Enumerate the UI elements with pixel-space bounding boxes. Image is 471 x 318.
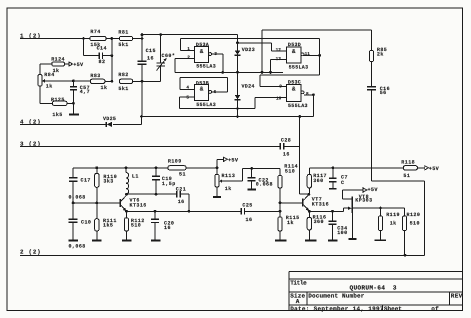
wire R113 wiper: [222, 168, 280, 181]
svg-text:5k1: 5k1: [118, 42, 128, 48]
svg-text:2: 2: [187, 56, 190, 61]
node VD24-net4: [236, 115, 239, 118]
svg-text:C25: C25: [242, 202, 252, 208]
capacitor C15: [138, 48, 156, 64]
wire R125-right: [67, 102, 73, 104]
svg-text:0,068: 0,068: [69, 194, 86, 200]
node rail R110: [95, 166, 98, 169]
svg-text:QUORUM-64: QUORUM-64: [350, 284, 386, 291]
svg-text:D53A: D53A: [196, 42, 209, 48]
svg-text:12: 12: [276, 48, 282, 53]
wire C16 down to common: [372, 90, 425, 256]
capacitor C19: [152, 168, 176, 194]
wire R85-C16: [371, 62, 373, 87]
ground bar C20: [151, 239, 161, 241]
node C25-col: [279, 210, 282, 213]
node pin13-join: [269, 71, 272, 74]
svg-text:&: &: [200, 48, 204, 55]
op-amp U2 gate D53B: [186, 81, 216, 109]
ground bar R119: [375, 239, 387, 241]
svg-text:510: 510: [285, 168, 295, 174]
diode VD23: [235, 35, 256, 73]
capacitor C34: [328, 211, 347, 240]
resistor R74: [90, 29, 106, 48]
svg-text:360: 360: [314, 219, 324, 225]
svg-text:R124: R124: [51, 57, 65, 63]
capacitor C14: [97, 46, 107, 66]
wire pin2 line: [175, 59, 194, 73]
svg-text:100: 100: [337, 230, 347, 236]
wire A-net horizontal: [175, 71, 283, 73]
svg-text:1k: 1k: [390, 221, 397, 227]
node VD23-tap: [236, 42, 239, 45]
wire C14 branch: [84, 39, 112, 82]
wire VT6 base: [73, 202, 120, 204]
svg-text:510: 510: [131, 223, 141, 229]
op-amp U3 gate D53D: [276, 42, 311, 70]
svg-text:R81: R81: [118, 30, 128, 36]
power +5V terminal 2: [217, 157, 239, 168]
potentiometer R84: [38, 72, 55, 89]
node R82/C60: [141, 80, 144, 83]
svg-text:+5V: +5V: [73, 62, 84, 68]
ground bar R112: [122, 239, 132, 241]
svg-text:10: 10: [276, 96, 282, 101]
op-amp U4 gate D53C: [276, 80, 309, 109]
node R74-left: [82, 37, 85, 40]
node rail C19: [155, 166, 158, 169]
capacitor C20: [151, 211, 174, 240]
wire T2 R85 top: [262, 30, 372, 73]
title block: [289, 271, 463, 312]
wire pin5/pin10 rail: [180, 108, 256, 110]
svg-text:of: of: [431, 305, 439, 312]
node 8-out: [312, 93, 315, 96]
node 1 (2): [20, 32, 41, 39]
node collector R117: [308, 193, 311, 196]
diode VD24: [235, 72, 255, 116]
wire T1 top: [142, 34, 238, 36]
svg-text:510: 510: [410, 221, 420, 227]
node base/R110: [95, 202, 98, 205]
svg-text:+5V: +5V: [368, 187, 379, 193]
resistor R124: [51, 57, 65, 74]
svg-text:13: 13: [276, 57, 282, 62]
node A-out: [221, 71, 224, 74]
capacitor C16: [367, 86, 390, 96]
svg-text:1k: 1k: [287, 220, 294, 226]
node 2 (2): [20, 248, 41, 255]
svg-text:0,068: 0,068: [69, 244, 86, 250]
svg-text:9: 9: [279, 84, 282, 89]
wire net1: [20, 38, 142, 40]
svg-text:3: 3: [393, 284, 397, 291]
node rail/R113: [216, 166, 219, 169]
node C21-drop: [188, 210, 191, 213]
resistor R116: [307, 211, 326, 240]
resistor R81: [118, 30, 132, 48]
resistor R109: [168, 158, 186, 177]
node T2-join: [261, 71, 264, 74]
svg-text:VD23: VD23: [242, 47, 255, 53]
wire pin12 line: [238, 43, 287, 51]
wire emitter to VT8: [309, 208, 349, 211]
node 4 (2): [20, 118, 41, 125]
capacitor C25: [241, 202, 252, 223]
wire pin1 feedback line P1: [181, 38, 320, 55]
ground bar C34: [328, 239, 338, 241]
svg-text:1k: 1k: [225, 186, 232, 192]
svg-text:L1: L1: [132, 173, 139, 179]
wire C21 to emitter line: [180, 194, 189, 211]
wire R113 bottom / ground: [213, 187, 221, 197]
svg-text:C21: C21: [176, 186, 186, 192]
node T1-left: [141, 33, 144, 36]
capacitor C22: [248, 168, 273, 189]
wire B feedback: [180, 77, 228, 92]
svg-text:16: 16: [246, 217, 253, 223]
wire net4 horizontal: [142, 116, 314, 118]
resistor R115: [278, 215, 300, 240]
svg-text:5k1: 5k1: [118, 86, 128, 92]
ground bar R111: [92, 239, 102, 241]
resistor R111: [95, 203, 117, 240]
svg-text:VD25: VD25: [103, 116, 116, 122]
svg-text:4,7: 4,7: [80, 89, 90, 95]
svg-text:360: 360: [313, 178, 323, 184]
node C22-top: [250, 167, 253, 170]
node R74-right: [111, 37, 114, 40]
diode VD25: [103, 116, 116, 127]
wire VT7 base: [280, 202, 303, 204]
svg-text:C28: C28: [281, 138, 291, 144]
svg-text:R120: R120: [407, 212, 421, 218]
op-amp U1 gate D53A: [187, 42, 217, 70]
svg-text:&: &: [292, 86, 296, 93]
wire pin5 line: [180, 97, 195, 109]
transistor Q2 VT7: [303, 195, 329, 211]
node C34-top: [331, 210, 334, 213]
wire A-out: [212, 54, 223, 72]
wire net3: [20, 145, 280, 147]
node emitter VT7: [308, 210, 311, 213]
wire 11-to-pin9: [260, 55, 319, 86]
svg-text:C10: C10: [81, 219, 91, 225]
node net4-junction: [140, 115, 143, 118]
svg-text:C: C: [341, 180, 344, 186]
svg-text:555LA3: 555LA3: [288, 103, 308, 109]
node C19-bottom: [155, 193, 158, 196]
svg-text:&: &: [200, 86, 204, 93]
svg-text:C60*: C60*: [162, 53, 176, 59]
wire supply rail left: [73, 167, 217, 169]
svg-text:D53C: D53C: [288, 80, 301, 86]
svg-text:555LA3: 555LA3: [289, 65, 309, 71]
power +5V terminal 3: [417, 166, 439, 173]
resistor R82: [118, 72, 132, 92]
node VD24-bottom: [236, 107, 239, 110]
node R81-right: [141, 37, 144, 40]
ground bar R115: [275, 239, 286, 241]
svg-text:R84: R84: [44, 72, 54, 78]
svg-text:2k: 2k: [377, 51, 384, 57]
svg-text:KP303: KP303: [355, 198, 372, 204]
wire VT8 source/gnd: [348, 213, 356, 239]
svg-text:R82: R82: [118, 72, 128, 78]
svg-text:A: A: [296, 298, 300, 305]
node C28-col-net4: [298, 115, 301, 118]
svg-text:56: 56: [380, 90, 387, 96]
svg-text:+5V: +5V: [228, 157, 239, 163]
svg-text:1k: 1k: [101, 85, 108, 91]
svg-text:Sheet: Sheet: [384, 305, 402, 312]
svg-text:1: 1: [187, 47, 190, 52]
node C14-right: [111, 54, 114, 57]
node C20-top: [154, 210, 157, 213]
power +5V terminal 4: [363, 187, 378, 193]
ground bar C57: [69, 114, 79, 116]
wire supply rail right: [309, 167, 403, 169]
wire net2 common rail: [20, 254, 425, 256]
node C60-top: [159, 33, 162, 36]
node wiper/C57: [72, 80, 75, 83]
wire C28 to collector column: [284, 117, 309, 195]
capacitor C21: [176, 186, 186, 205]
resistor R114: [278, 163, 298, 217]
svg-text:51: 51: [179, 171, 186, 177]
node 11-out: [318, 54, 321, 57]
wire C25 to R115 column: [245, 210, 281, 212]
resistor R110: [95, 168, 118, 203]
transistor Q1 VT6: [120, 195, 146, 211]
wire collector line: [127, 193, 177, 195]
wire R124 leads: [40, 64, 69, 75]
svg-text:1k: 1k: [46, 84, 53, 90]
node R82-left: [111, 80, 114, 83]
inductor L1: [126, 168, 139, 194]
svg-text:R109: R109: [168, 158, 182, 164]
svg-text:REV: REV: [451, 292, 463, 299]
svg-text:VD24: VD24: [242, 83, 255, 89]
wire 8-out: [304, 95, 314, 117]
svg-text:+5V: +5V: [429, 166, 440, 172]
resistor R119: [378, 208, 400, 240]
svg-text:R118: R118: [401, 160, 415, 166]
svg-text:1,5p: 1,5p: [162, 181, 176, 187]
resistor R118: [401, 160, 417, 180]
resistor R85: [369, 47, 387, 62]
resistor R112: [124, 211, 144, 240]
svg-text:Date: September 14, 1997: Date: September 14, 1997: [290, 305, 384, 312]
svg-text:1k5: 1k5: [52, 112, 62, 118]
svg-text:4: 4: [186, 86, 189, 91]
ground bar R116: [305, 239, 317, 241]
capacitor C28: [280, 138, 291, 158]
wire pin13 line: [271, 60, 287, 73]
node C7-top: [332, 166, 335, 169]
resistor R120: [403, 208, 421, 255]
node 3 (2): [20, 140, 41, 147]
node R119-top: [379, 207, 382, 210]
svg-text:R74: R74: [90, 29, 100, 35]
svg-text:C15: C15: [146, 48, 156, 54]
potentiometer R113: [215, 168, 235, 192]
wire net4: [20, 117, 142, 125]
svg-text:51: 51: [403, 173, 410, 179]
wire R82-right: [133, 80, 142, 82]
wire emitter line: [127, 210, 242, 212]
capacitor C60* variable: [142, 35, 175, 82]
svg-text:2 (2): 2 (2): [20, 248, 41, 255]
capacitor C17: [69, 168, 91, 203]
svg-text:KT316: KT316: [130, 203, 147, 209]
node emitter: [125, 210, 128, 213]
wire B-out: [212, 91, 228, 93]
svg-text:D53D: D53D: [288, 42, 301, 48]
svg-text:C17: C17: [81, 177, 91, 183]
node base-col: [279, 202, 282, 205]
wire column x142: [141, 35, 143, 117]
svg-text:D53B: D53B: [196, 81, 209, 87]
svg-text:C14: C14: [97, 46, 107, 52]
wire 11-out: [304, 54, 320, 56]
wire VT8 output line: [353, 207, 405, 209]
node collector L1: [125, 193, 128, 196]
power +5V terminal 1: [69, 62, 84, 68]
svg-text:KT316: KT316: [312, 202, 329, 208]
svg-text:R83: R83: [90, 73, 100, 79]
node R120-bottom: [404, 254, 407, 257]
svg-text:82: 82: [99, 59, 106, 65]
wire R84 wiper: [45, 80, 91, 82]
ground bar C7: [329, 188, 337, 190]
svg-text:1k5: 1k5: [103, 223, 113, 229]
svg-text:555LA3: 555LA3: [196, 102, 216, 108]
svg-text:R119: R119: [386, 212, 400, 218]
wire R84 bottom: [40, 86, 53, 103]
ground bar C22: [247, 189, 256, 191]
svg-text:3k3: 3k3: [103, 179, 113, 185]
resistor R117: [307, 168, 327, 194]
svg-text:16: 16: [178, 199, 185, 205]
node rail L1: [125, 166, 128, 169]
svg-text:Title: Title: [290, 279, 307, 286]
wire pin10 line: [255, 98, 287, 109]
resistor R125: [51, 97, 67, 118]
svg-text:&: &: [292, 48, 296, 55]
svg-text:5: 5: [186, 96, 189, 101]
ground bar C10: [69, 239, 79, 241]
svg-text:555LA3: 555LA3: [196, 64, 216, 70]
svg-text:R113: R113: [222, 173, 236, 179]
svg-text:16: 16: [283, 152, 290, 158]
node C57/R125: [72, 102, 75, 105]
resistor R83: [90, 73, 107, 91]
svg-text:R125: R125: [51, 97, 65, 103]
transistor Q3 VT8 KP303: [343, 190, 373, 213]
svg-text:0.068: 0.068: [256, 182, 273, 188]
svg-text:16: 16: [147, 55, 154, 61]
svg-text:11: 11: [305, 52, 311, 57]
svg-text:16: 16: [164, 225, 171, 231]
capacitor C7: [329, 168, 348, 189]
wire R83-right: [105, 80, 112, 82]
node VD23-bottom: [236, 71, 239, 74]
capacitor C57: [70, 81, 90, 114]
node base/C17: [72, 202, 75, 205]
svg-text:Document Number: Document Number: [308, 292, 365, 299]
capacitor C10: [69, 203, 92, 250]
